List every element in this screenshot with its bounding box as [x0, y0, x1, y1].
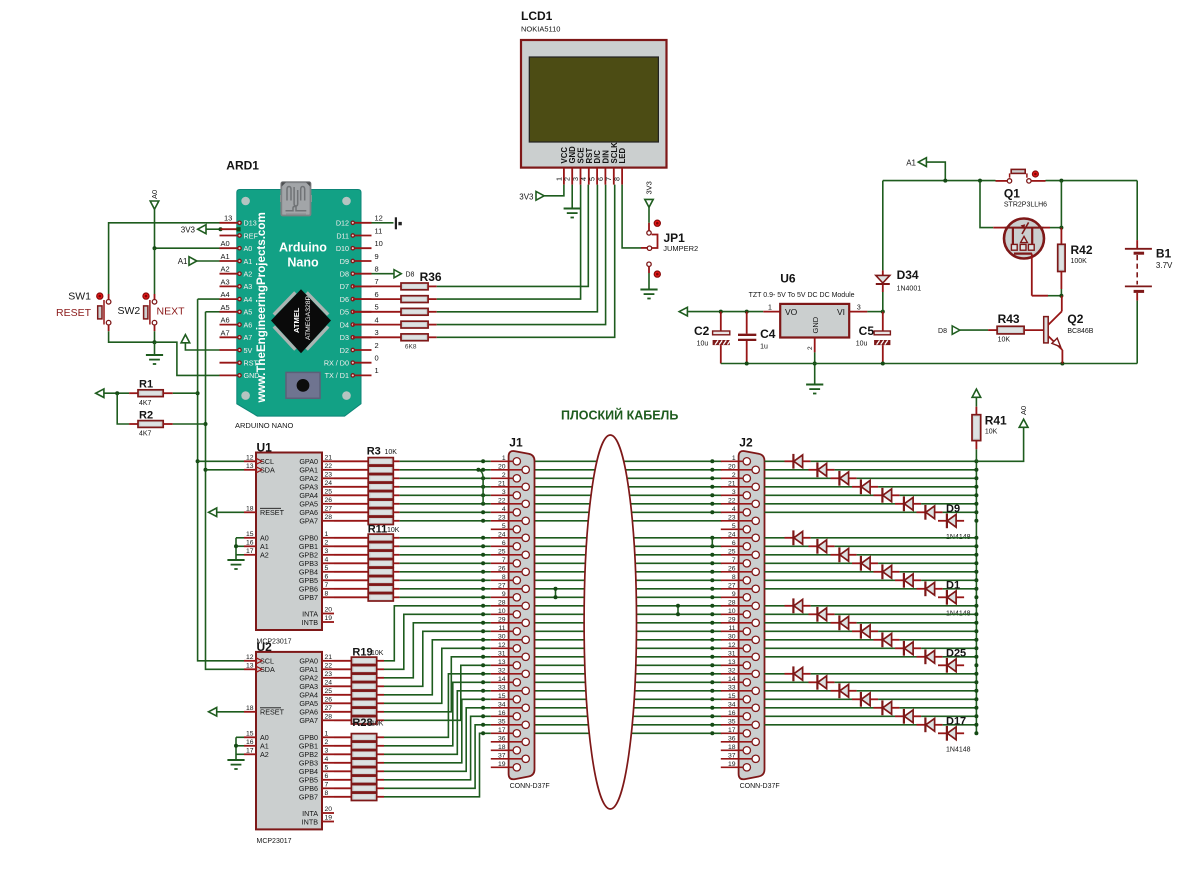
wire R41 to bus: [975, 449, 977, 461]
svg-text:15: 15: [728, 693, 736, 700]
svg-text:D11: D11: [336, 231, 349, 240]
svg-text:1: 1: [732, 455, 736, 462]
wire R28 element 1 red right: [377, 736, 384, 738]
junction bus row 12: [974, 553, 978, 557]
svg-text:23: 23: [325, 671, 333, 678]
diode D17 row 33: [938, 726, 964, 741]
svg-text:D8: D8: [340, 270, 349, 279]
J1 pin stubs: [491, 461, 509, 767]
junction row 21 J2 side: [710, 629, 714, 633]
value R3 10K: [385, 449, 398, 456]
wire R28 element 4 red right: [377, 762, 384, 764]
junction bus row 6: [974, 502, 978, 506]
diode matrix d7 row 7: [917, 505, 943, 520]
resistor R3 element 5: [368, 492, 393, 499]
U1 left pin numbers: [246, 455, 254, 556]
junction row 3 J2 side: [710, 476, 714, 480]
resistor R11 element 2: [368, 543, 393, 550]
wire R3 out to J1 row 5: [400, 494, 491, 496]
pin arrow U1 SCL: [257, 459, 263, 465]
junction GND rail/U6: [813, 362, 817, 366]
wire U6 pin1 red: [763, 311, 780, 313]
svg-text:2: 2: [732, 472, 736, 479]
svg-text:26: 26: [325, 697, 333, 704]
diode matrix d2 row 2: [809, 462, 835, 477]
wire SDA bus (A5 to U2): [206, 312, 245, 670]
IC U1 MCP23017 body: [256, 453, 322, 631]
svg-text:27: 27: [498, 582, 506, 589]
resistor R19 element 1: [351, 657, 376, 664]
reference D25: [946, 647, 966, 659]
junction row 13 J2 side: [710, 561, 714, 565]
svg-text:5: 5: [375, 303, 379, 312]
value C5 10u: [856, 341, 868, 348]
resistor R3 element 4: [368, 483, 393, 490]
svg-text:STR2P3LLH6: STR2P3LLH6: [1004, 202, 1047, 209]
svg-text:8: 8: [325, 591, 329, 598]
wire R3 out to J1 row 2: [400, 469, 491, 471]
wire J1-J2 row 21 (pin 11): [535, 630, 722, 632]
wire top rail right: [1046, 180, 1138, 182]
svg-text:27: 27: [728, 582, 736, 589]
wire U1 GPB5 to R11: [334, 579, 368, 581]
junction J1 row 20: [481, 621, 485, 625]
svg-text:A4: A4: [221, 290, 230, 299]
reference R41: [985, 414, 1007, 428]
junction bus row 18: [974, 604, 978, 608]
junction row 14 J2 side: [710, 570, 714, 574]
svg-text:J1: J1: [509, 436, 523, 450]
wire U1 A0: [236, 537, 244, 539]
wire J1-J2 row 32 (pin 35): [535, 724, 722, 726]
junction J1 row 8: [481, 519, 485, 523]
svg-text:A2: A2: [260, 750, 269, 759]
input terminal A1: [189, 257, 197, 266]
connector J1 CONN-D37F body: [509, 451, 535, 779]
diode D34: [876, 270, 890, 292]
power terminal 3V3 (JP1): [645, 181, 654, 194]
junction SCL/R1: [196, 391, 200, 395]
svg-text:30: 30: [498, 633, 506, 640]
wire J1-J2 row 20 (pin 29): [535, 622, 722, 624]
label R19: [352, 647, 372, 659]
svg-text:5: 5: [325, 765, 329, 772]
diode matrix d24 row 24: [917, 649, 943, 664]
wire R19 element 6 to J1 row 23: [384, 648, 491, 703]
svg-text:C2: C2: [694, 324, 710, 338]
svg-text:23: 23: [728, 514, 736, 521]
svg-text:4: 4: [502, 506, 506, 513]
svg-text:29: 29: [728, 616, 736, 623]
switch SW1 indicator: [97, 293, 103, 299]
wire R41 top: [975, 398, 977, 407]
wire diode row 1 to bus: [811, 460, 977, 462]
U1 left pin names: [260, 457, 285, 559]
svg-text:15: 15: [246, 531, 254, 538]
junction J1 row 6: [481, 502, 485, 506]
reference JP1: [664, 231, 686, 245]
svg-text:20: 20: [325, 806, 333, 813]
wire U2 address ground stem: [235, 737, 237, 759]
wire J2 row 30 to diode: [765, 707, 874, 709]
switch SW2 top stub: [154, 294, 156, 299]
wire R28 element 6 to J1 row 31: [384, 716, 491, 780]
junction J1 row 26: [481, 672, 485, 676]
svg-text:R42: R42: [1071, 243, 1093, 257]
junction J1 row 4: [481, 485, 485, 489]
svg-text:R3: R3: [367, 446, 381, 458]
wire B1 bottom: [1136, 301, 1138, 364]
diode matrix d16 row 16: [917, 581, 943, 596]
ground symbol (U1 address): [227, 560, 244, 569]
value J2 CONN-D37F: [740, 783, 780, 790]
svg-text:U6: U6: [780, 272, 796, 286]
wire R19 element 4 red right: [377, 685, 384, 687]
board mounting holes: [241, 197, 351, 400]
wire 5V terminal to pin: [185, 343, 219, 350]
pin number 3 (U6 VI): [857, 305, 861, 312]
junction rail/C5: [881, 362, 885, 366]
value R43 10K: [998, 336, 1011, 343]
pin label A7: [221, 328, 230, 337]
svg-text:D6: D6: [340, 295, 349, 304]
svg-text:11: 11: [499, 625, 506, 632]
svg-text:D8: D8: [938, 328, 947, 335]
battery B1: [1125, 240, 1152, 301]
module U6 body: [780, 304, 849, 338]
wire R19 element 5 to J1 row 22: [384, 640, 491, 695]
resistor R11 element 4: [368, 560, 393, 567]
svg-text:TZT 0.9- 5V To 5V DC DC Module: TZT 0.9- 5V To 5V DC DC Module: [749, 292, 855, 299]
board right pin stubs: [353, 223, 372, 376]
junction bus row 2: [974, 468, 978, 472]
resistor R41: [972, 415, 981, 441]
svg-text:LED: LED: [618, 148, 627, 164]
svg-text:ПЛОСКИЙ КАБЕЛЬ: ПЛОСКИЙ КАБЕЛЬ: [561, 408, 678, 423]
svg-text:2: 2: [375, 341, 379, 350]
wire diode row 24 to bus: [943, 656, 977, 658]
wire SW1 bottom to ground rail: [109, 331, 155, 342]
svg-text:7: 7: [502, 557, 506, 564]
resistor R3 element 7: [368, 509, 393, 516]
wire R19 element 3 to J1 row 20: [384, 623, 491, 678]
junction row 2 J2 side: [710, 468, 714, 472]
resistor R19 element 3: [351, 674, 376, 681]
wire diode row 6 to bus: [921, 503, 976, 505]
wire R3 element 8 red right: [393, 520, 399, 522]
junction bus row 16: [974, 587, 978, 591]
wire 3V3 to REF node: [206, 228, 221, 230]
input terminal D8 (arduino): [394, 270, 401, 278]
svg-text:10u: 10u: [697, 341, 709, 348]
svg-text:GND: GND: [244, 371, 260, 380]
svg-text:BC846B: BC846B: [1067, 328, 1093, 335]
svg-text:7: 7: [325, 782, 329, 789]
wire D3 to R36: [353, 336, 401, 338]
svg-text:D7: D7: [340, 282, 349, 291]
U2 left pin names: [260, 657, 285, 760]
wire J2 row 24 to diode: [765, 656, 917, 658]
Arduino Nano ARD1 board: [237, 190, 361, 417]
wire J1-J2 row 10 (pin 24): [535, 537, 722, 539]
ATmega chip gray pads: [274, 292, 328, 349]
U2 left pin stubs: [244, 661, 256, 755]
wire diode row 15 to bus: [921, 579, 976, 581]
wire R11 out to J1 row 15: [400, 579, 491, 581]
diode matrix d26 row 26: [785, 666, 811, 681]
junction row 22 J2 side: [710, 638, 714, 642]
wire J2 row 20 to diode: [765, 622, 831, 624]
reference U6: [780, 272, 796, 286]
diode matrix d10 row 10: [785, 530, 811, 545]
wire diode row 19 to bus: [835, 613, 977, 615]
junction J1 row 15: [481, 578, 485, 582]
wire R19 element 6 red right: [377, 702, 384, 704]
wire battery minus rail: [721, 363, 1137, 365]
svg-text:4K7: 4K7: [139, 400, 152, 407]
wire U2 GPA1 to R19: [334, 668, 351, 670]
wire U2 A1: [236, 745, 244, 747]
wire D34 top: [882, 181, 884, 271]
diode matrix d19 row 19: [809, 607, 835, 622]
wire R36 element 1 red right: [428, 285, 437, 287]
junction J1 row 16: [481, 587, 485, 591]
svg-text:D25: D25: [946, 647, 966, 659]
junction J1 row 14: [481, 570, 485, 574]
junction J1 row 19: [481, 612, 485, 616]
J1 pin numbers: [498, 455, 506, 768]
svg-text:13: 13: [728, 659, 736, 666]
junction row 23 J2 side: [710, 646, 714, 650]
capacitor C4: [738, 312, 756, 364]
U1 right pin numbers: [325, 455, 333, 623]
value Q1 STR2P3LLH6: [1004, 202, 1047, 209]
wire LCD LED to JP1: [622, 185, 641, 248]
diode matrix d20 row 20: [831, 615, 857, 630]
terminal arrow (R1 left): [96, 389, 104, 398]
wire J2 row 15 to diode: [765, 579, 896, 581]
junction bus row 14: [974, 570, 978, 574]
value U1 MCP23017: [257, 639, 292, 646]
svg-text:4: 4: [325, 756, 329, 763]
svg-text:24: 24: [498, 531, 506, 538]
wire J1-J2 row 14 (pin 26): [535, 571, 722, 573]
wire R19 element 5 red right: [377, 694, 384, 696]
wire R19 element 8 red right: [377, 719, 384, 721]
svg-text:6: 6: [325, 574, 329, 581]
LCD pin stubs: [564, 168, 622, 185]
reference R42: [1071, 243, 1093, 257]
junction VO/C4: [745, 310, 749, 314]
value D1 1N4148: [946, 610, 971, 617]
wire R3 out to J1 row 4: [400, 486, 491, 488]
wire R19 element 1 to J1 row 18: [384, 606, 491, 661]
svg-text:A1: A1: [178, 257, 188, 266]
wire R11 out to J1 row 14: [400, 571, 491, 573]
wire JP1 pin2 red: [641, 247, 647, 249]
wire J1-J2 row 12 (pin 25): [535, 554, 722, 556]
svg-text:12: 12: [728, 642, 736, 649]
svg-text:D12: D12: [336, 219, 349, 228]
indicator pushbutton: [1032, 171, 1038, 177]
power terminal A0 (bottom right): [1019, 419, 1028, 427]
wire R42 to Q2 node: [1060, 289, 1062, 296]
diode matrix d1 row 1: [785, 454, 811, 469]
resistor R36 element 4: [401, 321, 428, 328]
svg-text:5: 5: [732, 523, 736, 530]
diode matrix d11 row 11: [809, 539, 835, 554]
terminal arrow A0 top: [150, 201, 159, 209]
svg-text:17: 17: [498, 727, 506, 734]
value R11 10K: [387, 527, 400, 534]
J2 pin stubs: [721, 461, 739, 767]
svg-text:8: 8: [502, 574, 506, 581]
svg-text:5: 5: [502, 523, 506, 530]
wire R28 element 3 to J1 row 28: [384, 691, 491, 755]
wire R41 bottom red: [975, 441, 977, 450]
junction row 26 J2 side: [710, 672, 714, 676]
junction bus row 7: [974, 510, 978, 514]
pushbutton (Q1 drain switch): [1007, 169, 1031, 183]
wire R28 element 2 to J1 row 27: [384, 682, 491, 746]
svg-text:R1: R1: [139, 379, 153, 391]
resistor R19 element 5: [351, 691, 376, 698]
wire U1 GPB3 to R11: [334, 562, 368, 564]
svg-text:33: 33: [728, 684, 736, 691]
svg-text:A4: A4: [244, 295, 253, 304]
wire J2 row 27 to diode: [765, 681, 809, 683]
flat cable (ellipse): [584, 435, 636, 809]
wire R1 left: [104, 392, 129, 394]
wire rail red into button: [996, 180, 1008, 182]
resistor R3 element 1: [368, 458, 393, 465]
svg-text:D34: D34: [897, 268, 919, 282]
wire R11 out to J1 row 10: [400, 537, 491, 539]
svg-text:RESET: RESET: [260, 708, 285, 717]
wire JP1 pin1 red: [648, 223, 650, 231]
svg-text:3: 3: [375, 328, 379, 337]
svg-text:10K: 10K: [985, 429, 998, 436]
svg-text:100K: 100K: [1071, 258, 1088, 265]
junction SDA/R2: [204, 422, 208, 426]
wire U1 GPB6 to R11: [334, 588, 368, 590]
pin label A1 (stub): [221, 252, 230, 261]
wire J1-J2 row 6 (pin 22): [535, 503, 722, 505]
resistor R28 element 3: [351, 751, 376, 758]
value B1 3.7V: [1156, 261, 1173, 270]
svg-text:9: 9: [375, 252, 379, 261]
wire D4 to R36: [353, 324, 401, 326]
pin number 1 (U6 VO): [768, 305, 772, 312]
junction J1 row 28: [481, 689, 485, 693]
reference D9: [946, 503, 960, 515]
wire R28 element 3 red right: [377, 753, 384, 755]
wire R28 element 4 to J1 row 29: [384, 699, 491, 763]
label D8 (Q2 base): [938, 328, 947, 335]
ground symbol (JP1): [640, 290, 657, 299]
svg-text:A6: A6: [221, 316, 230, 325]
svg-text:D5: D5: [340, 308, 349, 317]
junction VI/D34/C5: [881, 310, 885, 314]
board left pin stubs: [220, 223, 240, 376]
wire U6 pin3 red: [849, 311, 867, 313]
svg-text:25: 25: [498, 548, 506, 555]
wire J1-J2 row 22 (pin 30): [535, 639, 722, 641]
value R42 100K: [1071, 258, 1088, 265]
wire R3 element 3 red right: [393, 477, 399, 479]
svg-text:0: 0: [375, 354, 379, 363]
board right pin numbers: [375, 214, 383, 376]
junction row 7 J2 side: [710, 510, 714, 514]
label R36: [420, 270, 442, 284]
resistor R11 element 1: [368, 534, 393, 541]
value R2 4K7: [139, 431, 152, 438]
wire link rows 18-19: [677, 606, 679, 615]
wire diode row 26 to bus: [811, 673, 977, 675]
svg-text:JUMPER2: JUMPER2: [663, 244, 698, 253]
svg-text:21: 21: [325, 654, 333, 661]
svg-text:R43: R43: [998, 312, 1020, 326]
wire J2 row 11 to diode: [765, 545, 809, 547]
label RESET: [56, 307, 92, 319]
svg-text:6: 6: [375, 290, 379, 299]
wire R28 element 7 red right: [377, 787, 384, 789]
wire R3 out to J1 row 1: [400, 460, 491, 462]
resistor R43: [997, 326, 1024, 334]
wire R11 out to J1 row 13: [400, 562, 491, 564]
wire D34 to VI: [882, 292, 884, 312]
wire bus to A0 terminal: [976, 428, 1023, 462]
wire diode row 27 to bus: [835, 681, 977, 683]
svg-text:23: 23: [325, 472, 333, 479]
wire R28 element 8 to J1 row 33: [384, 733, 491, 797]
wire R19 element 2 to J1 row 19: [384, 614, 491, 669]
J1 pin circles: [509, 458, 530, 771]
wire A1 terminal to pin: [197, 260, 220, 262]
wire U1 GPA6 to R3: [334, 511, 368, 513]
wire VI to D34 node: [867, 311, 882, 313]
transistor Q2 (NPN): [1044, 296, 1063, 364]
wire diode row 32 to bus: [943, 724, 977, 726]
junction row 20 J2 side: [710, 621, 714, 625]
wire diode row 14 to bus: [900, 571, 977, 573]
resistor R36 element 1: [401, 283, 428, 290]
chip text ATMEGA328P: [305, 295, 312, 340]
svg-text:19: 19: [325, 615, 333, 622]
label R28: [352, 717, 372, 729]
wire U2 GPB5 to R28: [334, 779, 351, 781]
resistor R28 element 4: [351, 759, 376, 766]
svg-text:19: 19: [728, 761, 736, 768]
svg-text:2: 2: [325, 739, 329, 746]
U1 right pin stubs: [322, 461, 334, 622]
wire J2 row 32 to diode: [765, 724, 917, 726]
svg-text:28: 28: [498, 599, 506, 606]
wire R11 element 2 red right: [393, 545, 399, 547]
junction row 25 J2 side: [710, 663, 714, 667]
wire R28 element 1 to J1 row 26: [384, 674, 491, 738]
wire J1-J2 row 5 (pin 3): [535, 494, 722, 496]
U6 GND pin red: [814, 338, 816, 353]
junction bus row 22: [974, 638, 978, 642]
svg-text:6: 6: [325, 773, 329, 780]
svg-text:A7: A7: [221, 328, 230, 337]
junction J1 row 30: [481, 706, 485, 710]
wire U2 GPA4 to R19: [334, 694, 351, 696]
junction J1 row 18: [481, 604, 485, 608]
label SW2: [118, 305, 141, 317]
logic marker at D12: [396, 217, 402, 229]
